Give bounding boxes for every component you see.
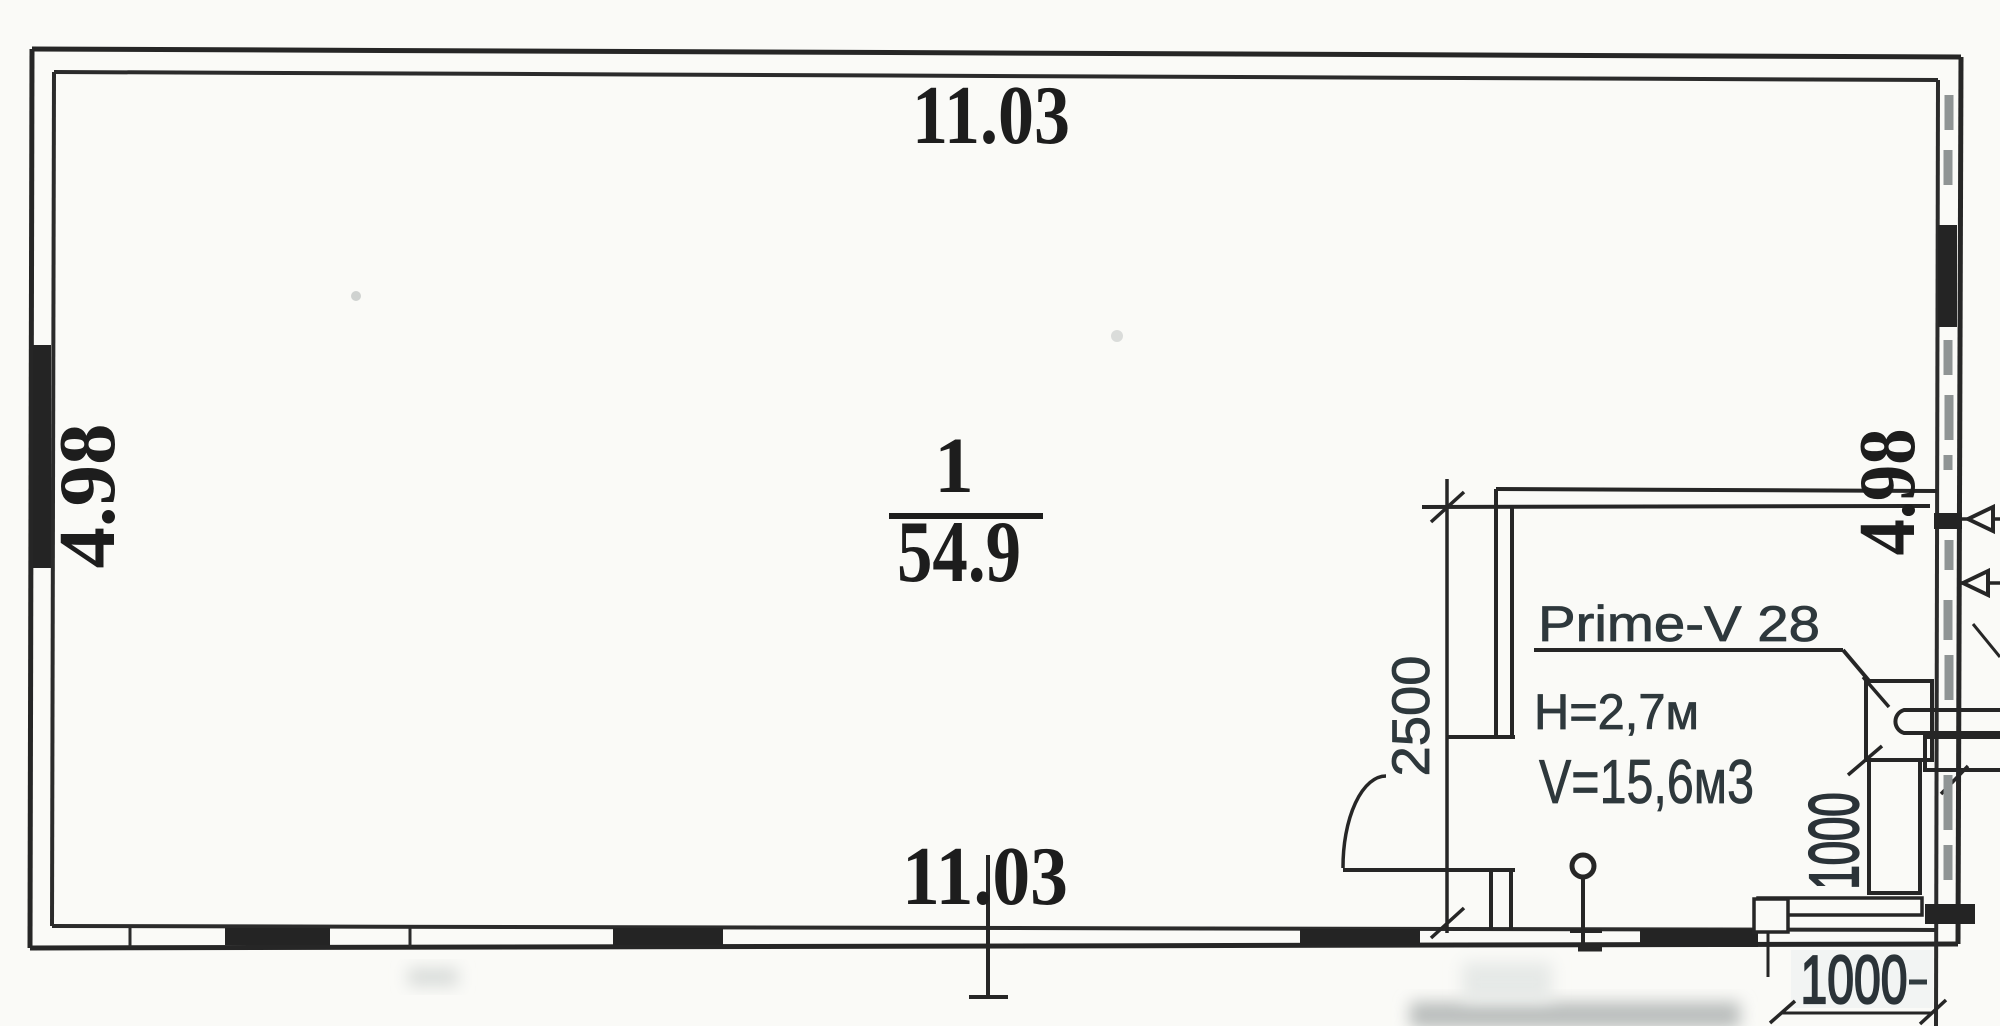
wall pier fill bottom 1 <box>225 928 330 945</box>
door stop lollipop symbol <box>1572 855 1594 877</box>
partition upper segment right line <box>1510 506 1514 737</box>
right wall scan dashes <box>1948 95 1949 880</box>
outer wall top <box>32 49 1961 57</box>
svg-text:V=15,6м3: V=15,6м3 <box>1539 748 1754 817</box>
extension line 1000 left <box>1767 933 1770 977</box>
scan smudge small left <box>408 968 458 986</box>
scan smudge below partition <box>1462 962 1552 1002</box>
svg-text:54.9: 54.9 <box>897 504 1021 601</box>
svg-text:H=2,7м: H=2,7м <box>1534 684 1699 740</box>
dimension line 2500 vertical <box>1445 479 1449 933</box>
diagonal mark outside wall <box>1973 624 2000 657</box>
partition upper segment left line <box>1494 489 1498 737</box>
floor duct end cap <box>1754 899 1788 932</box>
wall pier fill right <box>1938 225 1957 327</box>
wall pier fill left <box>33 345 51 568</box>
tick on wall below duct <box>1941 766 1968 794</box>
axis line below bottom 11.03 <box>986 855 990 996</box>
wall pier fill bottom 3 <box>1300 929 1420 945</box>
inner wall left <box>52 72 54 926</box>
dimension line 1000 bottom <box>1781 1012 1932 1015</box>
fraction bar <box>889 513 1043 519</box>
axis line foot <box>969 995 1008 999</box>
dash after 1000 <box>1909 980 1927 985</box>
svg-text:1000: 1000 <box>1801 942 1908 1018</box>
svg-text:1: 1 <box>934 423 974 510</box>
inner wall right (runs to sheet edge) <box>1936 80 1938 1026</box>
scan speck 2 <box>1111 330 1123 342</box>
tick at unit top left <box>1863 677 1889 707</box>
partition lower segment left line <box>1489 871 1493 930</box>
leader underline Prime-V <box>1534 648 1843 652</box>
door swing arc <box>1343 776 1386 868</box>
duct capsule through wall <box>1895 710 2000 733</box>
tick at unit bottom left <box>1848 746 1882 775</box>
dimension tick 2500 bottom <box>1431 908 1464 938</box>
svg-text:4.98: 4.98 <box>1844 429 1932 556</box>
svg-text:11.03: 11.03 <box>912 69 1070 162</box>
store room top wall upper line <box>1496 489 1937 491</box>
svg-text:Prime-V 28: Prime-V 28 <box>1538 596 1820 652</box>
store room top wall lower line <box>1422 506 1930 507</box>
ventilation unit lower box <box>1869 760 1920 893</box>
ventilation unit upper box <box>1866 681 1932 760</box>
wall tick bottom a <box>129 926 132 947</box>
wall tick bottom b <box>409 926 412 947</box>
outer wall bottom <box>30 944 1958 948</box>
svg-text:11.03: 11.03 <box>902 830 1068 923</box>
scan speck 1 <box>351 291 361 301</box>
window arrow lower <box>1963 571 1988 595</box>
outer wall right <box>1958 57 1961 944</box>
door leaf <box>1343 868 1515 872</box>
dimension tick 1000 right <box>1920 1000 1946 1024</box>
svg-text:4.98: 4.98 <box>44 424 132 569</box>
leader diagonal to unit <box>1843 650 1876 689</box>
inner wall top <box>54 72 1938 80</box>
floor duct bar bottom <box>1758 898 1922 915</box>
inner wall bottom <box>52 926 1936 930</box>
dark blob at stub upper <box>1934 513 1962 529</box>
svg-text:2500: 2500 <box>1382 656 1441 777</box>
dark junction blob at wall <box>1925 904 1975 924</box>
scan smudge band bottom center <box>1410 1002 1740 1026</box>
window arrow stub upper <box>1950 517 2000 521</box>
dimension tick 1000 left <box>1770 1001 1795 1023</box>
white label box 1000 <box>1791 950 1933 1008</box>
window arrow stub lower <box>1959 581 2000 585</box>
outer wall left <box>30 49 32 948</box>
dimension tick 2500 top <box>1431 492 1464 522</box>
wall pier fill bottom 2 <box>613 928 723 945</box>
wall pier fill bottom 4 <box>1640 929 1758 947</box>
duct bar lower through wall <box>1925 737 2000 770</box>
door jamb cap <box>1447 735 1515 739</box>
partition lower segment right line <box>1509 871 1513 930</box>
svg-text:1000: 1000 <box>1795 793 1873 890</box>
window arrow upper <box>1968 507 1993 531</box>
